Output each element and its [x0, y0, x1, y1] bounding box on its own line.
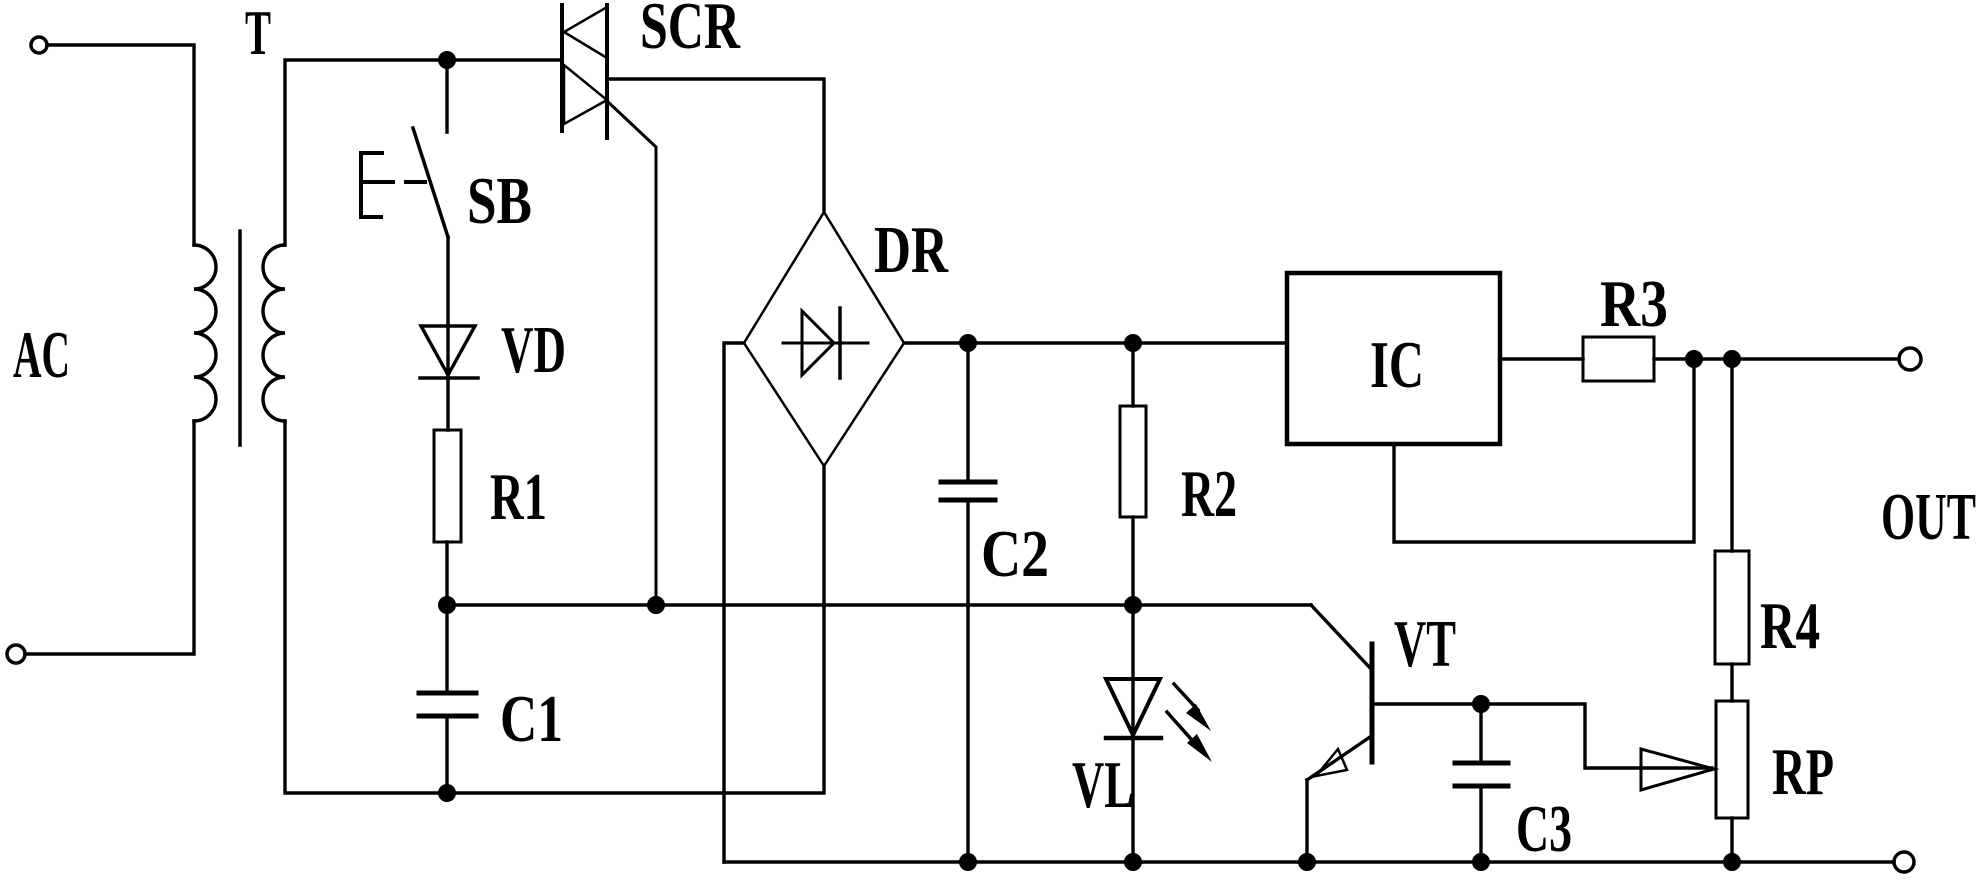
- wire C3 top: [1479, 704, 1482, 763]
- wire IC feedback loop: [1394, 359, 1694, 542]
- svg-text:C1: C1: [500, 682, 563, 756]
- wire SCR output to DR top: [607, 79, 824, 212]
- wire VL top: [1131, 605, 1134, 739]
- transistor VT collector lead: [1311, 605, 1372, 670]
- svg-text:SCR: SCR: [640, 0, 740, 63]
- svg-text:VL: VL: [1072, 748, 1134, 822]
- diode VD: [421, 326, 475, 375]
- svg-text:IC: IC: [1370, 328, 1424, 402]
- svg-text:R4: R4: [1760, 589, 1820, 663]
- svg-text:T: T: [245, 0, 271, 68]
- terminal AC bottom-left: [7, 645, 25, 663]
- transistor VT emitter arrow: [1316, 749, 1347, 776]
- wire secondary bottom to rail y793: [285, 421, 824, 793]
- wire C2 bottom to ground rail: [966, 500, 969, 862]
- node R4 top: [1723, 350, 1741, 368]
- node VL ground: [1124, 853, 1142, 871]
- wire secondary top to SCR anode: [285, 60, 562, 245]
- wire AC top to transformer primary: [47, 45, 194, 245]
- node C3 top: [1472, 695, 1490, 713]
- svg-text:AC: AC: [13, 318, 70, 392]
- switch SB actuator bracket: [361, 153, 393, 217]
- wire R1 to node: [445, 542, 448, 605]
- svg-text:R2: R2: [1181, 457, 1237, 531]
- wire VL bottom to ground rail: [1131, 739, 1134, 862]
- transistor VT base lead: [1372, 702, 1481, 705]
- node C1 rail: [438, 784, 456, 802]
- wire R2 bottom: [1131, 517, 1134, 605]
- transformer T primary coil: [194, 245, 216, 421]
- svg-text:VD: VD: [501, 313, 566, 387]
- potentiometer RP body: [1716, 701, 1748, 818]
- transformer T core: [238, 231, 242, 445]
- thyristor SCR lower triangle: [564, 65, 607, 124]
- wire VT emitter to ground rail: [1305, 780, 1308, 862]
- switch SB linkage dash: [406, 180, 425, 184]
- capacitor C3: [1455, 761, 1508, 766]
- node feedback: [1685, 350, 1703, 368]
- resistor R3: [1583, 337, 1654, 381]
- node C2 ground: [959, 853, 977, 871]
- node RP ground: [1723, 853, 1741, 871]
- thyristor SCR gate lead: [607, 101, 656, 605]
- wire to R4: [1730, 359, 1733, 551]
- transistor VT emitter lead: [1307, 737, 1370, 780]
- LED VL light arrow 1: [1174, 684, 1198, 710]
- wire wiper to C3 node: [1481, 704, 1712, 768]
- node junction at top wire: [438, 51, 456, 69]
- wire C3 bottom: [1479, 786, 1482, 862]
- thyristor SCR left bar: [560, 5, 564, 131]
- wire DR right to IC: [904, 341, 1287, 344]
- wire gate rail y605: [447, 603, 1311, 606]
- switch SB blade: [413, 128, 448, 237]
- svg-text:C3: C3: [1516, 792, 1572, 866]
- wire DR left vertex down to ground rail: [724, 343, 744, 862]
- LED VL light arrow 2: [1167, 712, 1191, 739]
- LED VL: [1106, 679, 1160, 735]
- svg-text:VT: VT: [1394, 607, 1456, 681]
- switch SB wire upper stub: [445, 60, 448, 132]
- bridge rectifier DR diamond: [744, 212, 904, 466]
- node C2 top: [959, 334, 977, 352]
- wire RP bottom to ground rail: [1730, 818, 1733, 862]
- wire R2 top: [1131, 343, 1134, 406]
- svg-text:RP: RP: [1772, 735, 1834, 809]
- wire node to C1: [445, 605, 448, 693]
- transistor VT base bar: [1370, 644, 1375, 762]
- wire C2 top: [966, 343, 969, 482]
- capacitor C1: [419, 691, 476, 696]
- resistor R4: [1715, 551, 1749, 664]
- svg-text:R3: R3: [1600, 267, 1668, 341]
- transformer T secondary coil: [263, 245, 285, 421]
- terminal OUT plus: [1899, 348, 1921, 370]
- bridge rectifier DR inner diode: [783, 342, 868, 345]
- terminal OUT minus: [1894, 852, 1914, 872]
- svg-text:SB: SB: [467, 164, 532, 238]
- node gate wire on rail: [647, 596, 665, 614]
- wire ground rail bottom: [724, 860, 1894, 863]
- resistor R2: [1120, 406, 1146, 517]
- node VT emitter ground: [1298, 853, 1316, 871]
- terminal AC top-left: [31, 37, 47, 53]
- resistor R1: [434, 430, 461, 542]
- node R1/C1/gate rail: [438, 596, 456, 614]
- node R2 top: [1124, 334, 1142, 352]
- svg-text:OUT: OUT: [1881, 480, 1976, 554]
- wire IC out to R3: [1500, 357, 1583, 360]
- thyristor SCR right bar: [605, 5, 609, 138]
- wire AC bottom to transformer primary: [25, 421, 194, 654]
- node C3 ground: [1472, 853, 1490, 871]
- svg-text:C2: C2: [981, 517, 1049, 591]
- svg-text:DR: DR: [874, 213, 948, 287]
- wire C1 to rail y793: [445, 716, 448, 793]
- svg-text:R1: R1: [490, 460, 547, 534]
- wire R4 to RP: [1730, 664, 1733, 701]
- thyristor SCR upper triangle: [564, 7, 607, 58]
- op-amp IC block: [1287, 273, 1500, 444]
- wire SB to VD: [446, 237, 449, 430]
- potentiometer RP wiper arrow: [1641, 749, 1714, 790]
- node R2/VL on rail: [1124, 596, 1142, 614]
- wire R3 to OUT terminal: [1654, 357, 1899, 360]
- capacitor C2: [941, 480, 995, 485]
